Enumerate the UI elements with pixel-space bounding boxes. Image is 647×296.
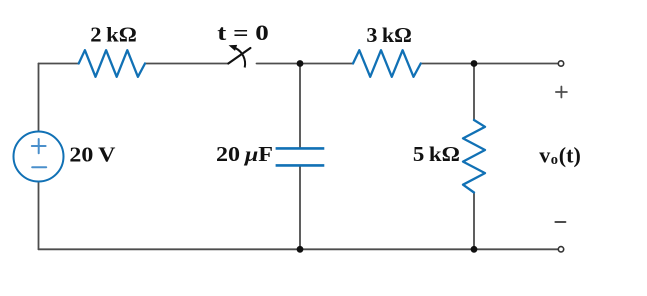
output terminal bottom open circle [558, 247, 563, 252]
resistor R1 2k ohm [79, 50, 145, 77]
wire top between switch and 3k resistor [257, 63, 354, 65]
output plus sign [556, 87, 567, 98]
node junction dot bottom capacitor [297, 246, 304, 253]
voltage source V1 circle [14, 132, 64, 182]
svg-text:(t): (t) [559, 143, 581, 168]
switch SW1 arc [236, 48, 246, 67]
node junction dot bottom 5k [471, 246, 478, 253]
svg-text:20 V: 20 V [69, 143, 115, 167]
wire bottom horizontal [39, 248, 559, 250]
svg-text:t = 0: t = 0 [217, 20, 268, 45]
svg-text:3 kΩ: 3 kΩ [366, 23, 412, 47]
wire 5k resistor top lead [473, 64, 475, 121]
svg-text:v: v [539, 143, 550, 168]
output minus sign [555, 221, 565, 223]
wire capacitor top lead [299, 64, 301, 149]
capacitor C1 top plate [276, 147, 325, 150]
switch SW1 arrowhead [229, 45, 238, 51]
wire capacitor bottom lead [299, 166, 301, 249]
wire left vertical lower [38, 182, 40, 250]
output terminal top open circle [558, 61, 563, 66]
svg-text:20 μF: 20 μF [216, 142, 273, 166]
voltage source minus sign [32, 166, 46, 168]
svg-text:o: o [551, 152, 558, 168]
resistor R2 3k ohm [353, 50, 421, 77]
wire 5k resistor bottom lead [473, 193, 475, 250]
voltage source plus sign [32, 139, 46, 153]
resistor R3 5k ohm [463, 120, 485, 193]
wire top between R1 and switch [145, 63, 228, 65]
svg-text:2 kΩ: 2 kΩ [90, 23, 137, 47]
capacitor C1 bottom plate [276, 164, 325, 167]
wire left vertical upper [38, 64, 40, 132]
node junction dot top capacitor [297, 60, 304, 67]
wire top between 3k resistor and output terminal [421, 63, 559, 65]
wire top-left horizontal [39, 63, 79, 65]
switch SW1 blade [228, 48, 250, 64]
node junction dot top 5k [471, 60, 478, 67]
svg-text:5 kΩ: 5 kΩ [413, 142, 460, 166]
